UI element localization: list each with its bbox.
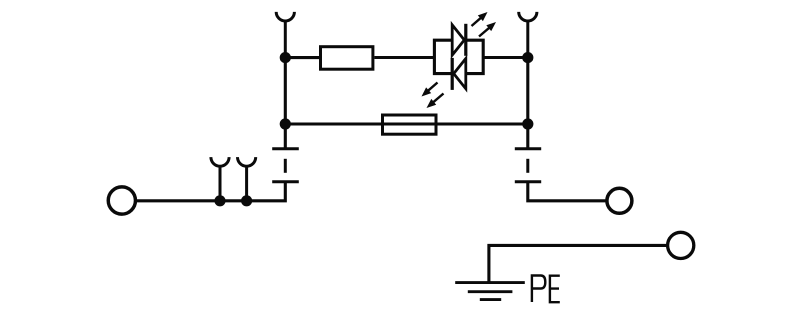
junction dot (bottom tap 1): [214, 195, 225, 206]
label PE: [532, 276, 560, 303]
LED block wire loop: [434, 40, 483, 73]
wire: resistor to LED block: [374, 56, 434, 59]
plug-in tap (top right): [519, 12, 537, 58]
LED D1 (top, anode left): [452, 24, 466, 56]
wire: middle bus: [285, 122, 528, 125]
LED D2 (bottom, anode right): [452, 58, 466, 90]
fuse F1: [383, 115, 437, 134]
wire: left disconnect to bottom rail corner: [134, 182, 285, 201]
terminal circle (PE): [668, 232, 694, 258]
terminal circle (left): [108, 187, 135, 214]
wire: tap to resistor: [285, 56, 319, 59]
plug-in tap (bottom 1): [211, 157, 229, 201]
earth ground symbol: [455, 283, 525, 300]
disconnect point (left): bars and gap: [272, 149, 299, 182]
junction dot (top right node): [522, 52, 533, 63]
wire: right disconnect to right terminal: [528, 182, 608, 201]
wire: left vertical bus: [284, 58, 287, 150]
LED light arrows (bottom left): [422, 83, 444, 109]
junction dot (top left node): [280, 52, 291, 63]
wire: PE branch: [489, 245, 668, 283]
junction dot (left middle node): [280, 118, 291, 129]
plug-in tap (top left): [276, 12, 294, 58]
plug-in tap (bottom 2): [238, 157, 256, 201]
resistor R1: [321, 47, 373, 69]
disconnect point (right): bars and gap: [515, 149, 541, 182]
LED light arrows (top right): [472, 12, 497, 37]
junction dot (bottom tap 2): [241, 195, 252, 206]
wire: right vertical bus: [526, 58, 529, 150]
junction dot (right middle node): [522, 118, 533, 129]
wire: LED block to top right node: [483, 56, 528, 59]
terminal circle (right): [607, 188, 632, 213]
